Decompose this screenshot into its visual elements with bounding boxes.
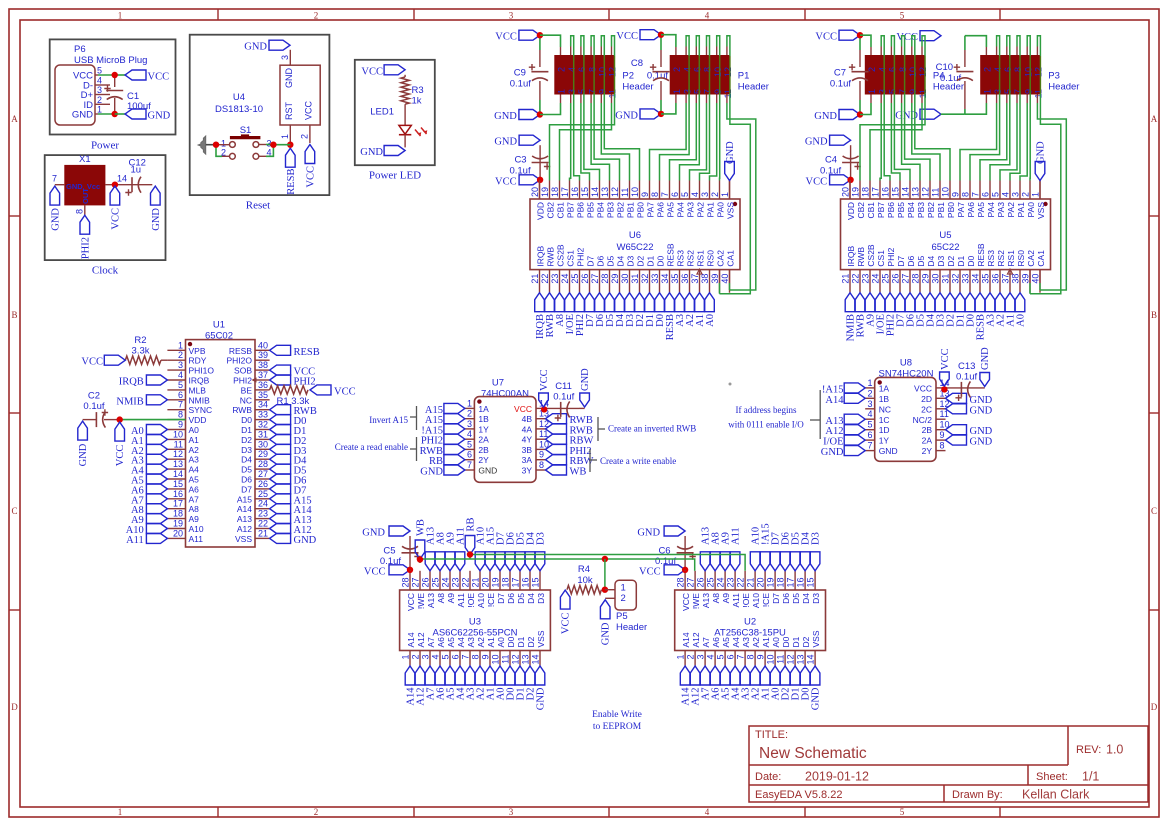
U6 pin 33 D0 (bottom)	[659, 270, 661, 293]
svg-text:12: 12	[608, 67, 618, 77]
U2 pin 18 D6 (top)	[784, 571, 786, 590]
net flag A2 (U5 pin 36)	[995, 293, 1005, 312]
svg-text:C2: C2	[88, 391, 100, 402]
svg-text:23: 23	[861, 274, 871, 284]
svg-text:RST: RST	[284, 101, 294, 120]
X1 pin 14 wire to VCC and C12	[105, 184, 152, 186]
svg-text:VSS: VSS	[1036, 202, 1046, 219]
svg-text:RWB: RWB	[856, 247, 866, 267]
U2 pin 15 D3 (top)	[814, 571, 816, 590]
net flag GND (C6)	[664, 526, 685, 536]
svg-text:Sheet:: Sheet:	[1036, 771, 1068, 783]
header P2 block	[554, 55, 615, 95]
U1 pin 10 A1	[167, 438, 185, 440]
svg-text:VCC: VCC	[914, 383, 932, 393]
svg-text:VSS: VSS	[536, 630, 546, 647]
svg-text:32: 32	[640, 274, 650, 284]
net flag D1 (U2 pin 12)	[790, 666, 800, 685]
U1 pin 25 A15	[255, 498, 270, 500]
svg-text:35: 35	[981, 274, 991, 284]
U6 pin 20 VDD (top)	[539, 181, 541, 200]
U5 pin 38 RS0 (bottom)	[1019, 270, 1021, 293]
svg-text:CA1: CA1	[1036, 250, 1046, 267]
resistor R3 1k	[404, 75, 406, 77]
svg-text:X1: X1	[79, 154, 91, 165]
U1 pin 27 D6	[255, 478, 270, 480]
wire header2 pin 11 to CA1 (outer loop)	[726, 95, 728, 104]
net flag A14 (U8 pin 2)	[844, 393, 865, 403]
wire pulldown branch	[604, 559, 606, 590]
svg-text:C3: C3	[514, 155, 526, 166]
U8 pin 4 1C	[865, 418, 875, 420]
svg-text:28: 28	[600, 274, 610, 284]
svg-text:6: 6	[726, 655, 736, 660]
svg-text:VCC: VCC	[539, 369, 550, 391]
U6 pin 36 RS2 (bottom)	[689, 270, 691, 293]
U3 pin 18 D6 (top)	[509, 571, 511, 590]
U8 pin 10 2B	[936, 429, 946, 431]
svg-text:PHI2: PHI2	[575, 247, 585, 266]
svg-text:D7: D7	[896, 255, 906, 266]
svg-text:20: 20	[173, 528, 183, 538]
svg-text:4: 4	[690, 192, 700, 197]
svg-text:8: 8	[178, 410, 183, 420]
svg-text:D0: D0	[781, 636, 791, 647]
svg-text:3: 3	[178, 360, 183, 370]
svg-text:14: 14	[531, 655, 541, 665]
svg-text:35: 35	[258, 390, 268, 400]
U1 pin 4 IRQB	[167, 379, 185, 381]
net flag RESB (U4)	[286, 148, 296, 167]
svg-text:26: 26	[580, 274, 590, 284]
svg-text:D6: D6	[241, 475, 252, 485]
svg-text:U1: U1	[213, 320, 225, 331]
wire header1 to VIA pin 14	[580, 47, 582, 56]
net flag A7 (U1)	[146, 494, 167, 504]
svg-text:PB0: PB0	[635, 202, 645, 218]
wire header1 to VIA pin 13	[901, 95, 903, 104]
svg-text:3: 3	[993, 89, 1003, 94]
svg-text:40: 40	[720, 274, 730, 284]
net flag A4 (U2 pin 6)	[730, 666, 740, 685]
svg-text:1: 1	[401, 655, 411, 660]
net flag A5 (U1)	[146, 474, 167, 484]
wire header2 to VIA pin 4	[1016, 47, 1018, 56]
U2 pin 25 A8 (top)	[714, 571, 716, 590]
svg-text:D5: D5	[916, 255, 926, 266]
svg-text:5: 5	[467, 439, 472, 449]
svg-text:IRQB: IRQB	[189, 376, 210, 386]
svg-text:A11: A11	[731, 527, 742, 545]
wire header2 to VIA pin 2	[716, 47, 718, 56]
wire header1 to VIA pin 18 (top rail)	[611, 95, 613, 104]
net flag A5 (U3 pin 5)	[445, 666, 455, 685]
svg-text:NMIB: NMIB	[189, 395, 211, 405]
svg-text:11: 11	[620, 188, 630, 197]
svg-text:A1: A1	[486, 637, 496, 648]
svg-text:GND: GND	[725, 141, 736, 164]
svg-text:GND: GND	[970, 395, 993, 406]
net flag GND (C3)	[519, 135, 540, 145]
wire WB bus to U2 !WE	[420, 559, 695, 563]
U2 pin 6 A4 (bottom)	[734, 651, 736, 667]
U7 pin 13 4B	[536, 418, 546, 420]
U5 pin 20 VDD (top)	[849, 181, 851, 200]
junction dot C5	[407, 567, 413, 573]
net flag D1 (U5 pin 32)	[955, 293, 965, 312]
P5 pin2 to GND	[605, 597, 615, 599]
svg-text:C11: C11	[555, 381, 572, 392]
svg-text:6: 6	[888, 67, 898, 72]
svg-text:11: 11	[1034, 89, 1044, 98]
U7 pin 11 4Y	[536, 438, 546, 440]
svg-text:A9: A9	[189, 514, 200, 524]
net flag A11 (U3 pin 23)	[455, 552, 465, 571]
svg-text:R1 3.3k: R1 3.3k	[277, 396, 310, 407]
U6 pin 24 CS1 (bottom)	[569, 270, 571, 293]
U5 pin 27 D6 (bottom)	[909, 270, 911, 293]
net flag RWB (U1 right pin 34)	[270, 405, 291, 415]
svg-text:12: 12	[786, 655, 796, 665]
svg-text:17: 17	[511, 577, 521, 587]
svg-text:PB3: PB3	[605, 202, 615, 218]
net flag GND (C11)	[580, 393, 590, 407]
net flag GND (C9 header)	[519, 110, 540, 120]
svg-text:18: 18	[861, 187, 871, 197]
svg-text:27: 27	[686, 577, 696, 587]
U5 pin 17 PB7 (top)	[879, 181, 881, 200]
svg-text:PHI2: PHI2	[886, 247, 896, 266]
net flag D4 (U1 right pin 29)	[270, 454, 291, 464]
svg-text:15: 15	[531, 577, 541, 587]
svg-text:5: 5	[577, 89, 587, 94]
U1 pin 6 NMIB	[167, 399, 185, 401]
U1 pin 21 VSS	[255, 537, 270, 539]
svg-text:7: 7	[1013, 89, 1023, 94]
svg-text:GND: GND	[970, 426, 993, 437]
svg-text:38: 38	[700, 274, 710, 284]
net flag VCC (U1 right pin 38)	[270, 365, 291, 375]
U5 pin 29 D4 (bottom)	[929, 270, 931, 293]
svg-text:3: 3	[509, 11, 514, 21]
svg-text:CA2: CA2	[1026, 250, 1036, 267]
U6 pin 12 PB2 (top)	[619, 181, 621, 200]
svg-text:RS0: RS0	[705, 250, 715, 267]
U7 pin 2 1B	[465, 418, 475, 420]
wire header2 to VIA pin 9	[685, 95, 687, 104]
U6 pin 21 IRQB (bottom)	[539, 270, 541, 293]
svg-text:21: 21	[746, 577, 756, 587]
wire header1 to VIA pin 10	[911, 47, 913, 56]
net flag A6 (U2 pin 4)	[710, 666, 720, 685]
svg-text:TITLE:: TITLE:	[755, 729, 788, 741]
svg-text:9: 9	[481, 655, 491, 660]
wire C10 to P3 pin2 (top loop)	[965, 36, 987, 47]
svg-text:14: 14	[173, 469, 183, 479]
U6 pin 35 RS3 (bottom)	[679, 270, 681, 293]
svg-text:1Y: 1Y	[478, 424, 489, 434]
svg-text:2: 2	[178, 350, 183, 360]
svg-text:32: 32	[258, 420, 268, 430]
net flag VCC (C4)	[830, 175, 851, 185]
svg-text:21: 21	[841, 274, 851, 284]
U5 pin 3 PA1 (top)	[1019, 181, 1021, 200]
net flag PHI2 (U7 pin 10)	[546, 444, 567, 454]
svg-text:GND: GND	[244, 42, 267, 53]
U5 pin 37 RS1 (bottom)	[1009, 270, 1011, 293]
svg-text:5: 5	[991, 192, 1001, 197]
X1 pin 8 OUT wire	[84, 205, 86, 215]
svg-text:24: 24	[871, 274, 881, 284]
svg-text:A11: A11	[126, 535, 144, 546]
svg-text:1k: 1k	[412, 96, 422, 107]
junction dot C6	[682, 567, 688, 573]
svg-text:GND: GND	[536, 687, 547, 710]
svg-text:P3: P3	[1048, 71, 1060, 82]
junction dots C8	[658, 32, 664, 38]
net flag RWB (U7 pin 12)	[546, 424, 567, 434]
svg-text:PB1: PB1	[625, 202, 635, 218]
U6 pin 28 D5 (bottom)	[609, 270, 611, 293]
svg-text:Kellan Clark: Kellan Clark	[1022, 788, 1090, 802]
U3 pin 16 D4 (top)	[529, 571, 531, 590]
capacitor C1 100uf	[114, 75, 116, 87]
svg-text:28: 28	[258, 459, 268, 469]
svg-text:RS2: RS2	[685, 250, 695, 267]
svg-text:GND: GND	[821, 447, 844, 458]
svg-text:PA5: PA5	[665, 202, 675, 218]
svg-text:23: 23	[451, 577, 461, 587]
svg-text:B: B	[1151, 310, 1157, 320]
wire header2 to VIA pin 7	[1006, 95, 1008, 104]
net flag D1 (U1 right pin 32)	[270, 425, 291, 435]
U1 pin 8 VDD	[167, 419, 185, 421]
net flag A1 (U2 pin 9)	[760, 666, 770, 685]
svg-text:D7: D7	[496, 593, 506, 604]
svg-text:15: 15	[806, 577, 816, 587]
svg-text:P5: P5	[616, 611, 628, 622]
svg-text:6: 6	[451, 655, 461, 660]
svg-text:4: 4	[993, 67, 1003, 72]
svg-text:3: 3	[97, 85, 102, 95]
U8 pin 2 1B	[865, 397, 875, 399]
svg-text:0.1uf: 0.1uf	[940, 73, 961, 84]
svg-text:16: 16	[173, 489, 183, 499]
X1 pin 7 wire	[55, 184, 65, 186]
svg-text:CB2: CB2	[856, 202, 866, 219]
svg-text:0.1uf: 0.1uf	[956, 372, 977, 383]
svg-text:A9: A9	[446, 593, 456, 604]
svg-text:IRQB: IRQB	[846, 245, 856, 266]
svg-text:16: 16	[881, 187, 891, 197]
U8 pin 9 2A	[936, 439, 946, 441]
svg-text:9: 9	[640, 192, 650, 197]
U1 pin 20 A11	[167, 537, 185, 539]
U5 pin 1 VSS (top)	[1039, 181, 1041, 200]
svg-text:1: 1	[280, 134, 290, 139]
net flag D2 (U1 right pin 31)	[270, 434, 291, 444]
svg-text:8: 8	[1013, 67, 1023, 72]
svg-text:D2: D2	[241, 435, 252, 445]
U3 pin 28 VCC (top)	[409, 571, 411, 590]
svg-text:2: 2	[314, 11, 319, 21]
svg-text:GND: GND	[72, 110, 93, 121]
svg-text:GND: GND	[615, 110, 638, 121]
U2 pin 24 A9 (top)	[724, 571, 726, 590]
svg-text:PA4: PA4	[675, 202, 685, 218]
svg-text:22: 22	[540, 274, 550, 284]
net flag !A15 (U7 pin 3)	[444, 424, 465, 434]
svg-text:32: 32	[951, 274, 961, 284]
svg-text:2C: 2C	[921, 404, 932, 414]
U8 pin 6 1Y	[865, 439, 875, 441]
U8 VCC pin14 node with C13	[946, 387, 985, 389]
svg-text:PA2: PA2	[695, 202, 705, 218]
svg-text:6: 6	[693, 67, 703, 72]
U5 pin 34 RESB (bottom)	[979, 270, 981, 293]
net flag GND (C7 header)	[839, 110, 860, 120]
U2 pin 4 A6 (bottom)	[714, 651, 716, 667]
svg-text:37: 37	[1001, 274, 1011, 284]
svg-text:GND: GND	[580, 368, 591, 391]
net flag A8 (U1)	[146, 504, 167, 514]
wire GND to P1 pin1	[661, 103, 676, 114]
U4 pin 2 VCC wire	[309, 125, 311, 143]
U5 pin 6 PA4 (top)	[989, 181, 991, 200]
svg-text:D0: D0	[966, 255, 976, 266]
svg-text:PA6: PA6	[966, 202, 976, 218]
svg-text:5: 5	[97, 66, 102, 76]
svg-text:A8: A8	[436, 593, 446, 604]
svg-text:D3: D3	[811, 593, 821, 604]
svg-text:3A: 3A	[522, 455, 533, 465]
svg-text:24: 24	[441, 577, 451, 587]
svg-text:13: 13	[911, 187, 921, 197]
svg-text:A3: A3	[466, 637, 476, 648]
net flag PHI2 (U1 right pin 37)	[270, 375, 291, 385]
svg-text:D1: D1	[516, 636, 526, 647]
svg-text:RESB: RESB	[286, 169, 297, 195]
svg-text:CS2B: CS2B	[555, 244, 565, 267]
U1 pin 38 SOB	[255, 369, 270, 371]
svg-text:VCC: VCC	[940, 348, 951, 370]
svg-text:29: 29	[921, 274, 931, 284]
svg-text:VCC: VCC	[681, 593, 691, 611]
svg-text:5: 5	[888, 89, 898, 94]
svg-text:R4: R4	[578, 564, 590, 575]
net flag A7 (U2 pin 3)	[700, 666, 710, 685]
U6 pin 17 PB7 (top)	[569, 181, 571, 200]
junction dots on C1	[112, 72, 118, 78]
svg-text:A7: A7	[426, 637, 436, 648]
svg-text:1A: 1A	[478, 404, 489, 414]
svg-text:65C22: 65C22	[932, 242, 960, 253]
svg-text:U4: U4	[233, 92, 245, 103]
U6 pin 22 RWB (bottom)	[549, 270, 551, 293]
svg-text:!OE: !OE	[466, 593, 476, 608]
svg-text:3: 3	[280, 55, 290, 60]
U8 pin 12 2C	[936, 408, 946, 410]
U6 pin 30 D3 (bottom)	[629, 270, 631, 293]
svg-text:31: 31	[630, 274, 640, 284]
svg-text:33: 33	[650, 274, 660, 284]
svg-text:16: 16	[570, 187, 580, 197]
wire header2 pin 11 to CA1 (outer loop)	[1036, 95, 1038, 104]
net flag D6 (U5 pin 27)	[905, 293, 915, 312]
U5 pin 8 PA6 (top)	[969, 181, 971, 200]
net flag A7 (U3 pin 3)	[425, 666, 435, 685]
svg-text:2: 2	[97, 95, 102, 105]
net flag RB (U7 pin 6)	[444, 455, 465, 465]
svg-text:6: 6	[867, 430, 872, 440]
svg-text:11: 11	[723, 89, 733, 98]
svg-text:Header: Header	[622, 82, 653, 93]
U3 pin 27 !WE (top)	[419, 571, 421, 590]
U5 pin 19 CB2 (top)	[859, 181, 861, 200]
svg-text:15: 15	[173, 479, 183, 489]
svg-text:1: 1	[1031, 192, 1041, 197]
svg-text:GND: GND	[601, 622, 612, 645]
svg-text:NC: NC	[240, 395, 252, 405]
junction dots S1	[213, 142, 219, 148]
net flag D3 (U1 right pin 30)	[270, 444, 291, 454]
svg-text:A12: A12	[691, 632, 701, 647]
junction dot C4	[847, 177, 853, 183]
svg-text:U2: U2	[744, 617, 756, 628]
svg-text:11: 11	[918, 89, 928, 98]
svg-text:17: 17	[173, 499, 183, 509]
svg-text:5: 5	[900, 11, 905, 21]
net flag A6 (U1)	[146, 484, 167, 494]
U2 pin 17 D5 (top)	[794, 571, 796, 590]
net flag A10 (U1)	[146, 524, 167, 534]
junction dots WB RB	[417, 556, 423, 562]
svg-text:VSS: VSS	[811, 630, 821, 647]
U2 pin 2 A12 (bottom)	[694, 651, 696, 667]
U3 pin 9 A1 (bottom)	[489, 651, 491, 667]
svg-text:A14: A14	[681, 632, 691, 647]
net flag RBW (U7 pin 11)	[546, 434, 567, 444]
svg-text:1C: 1C	[879, 415, 890, 425]
svg-text:A7: A7	[701, 637, 711, 648]
U1 pin 31 D2	[255, 438, 270, 440]
svg-text:2019-01-12: 2019-01-12	[805, 770, 869, 784]
net flag A13 (U2 pin 26)	[700, 552, 710, 571]
svg-text:13: 13	[796, 655, 806, 665]
svg-text:PA7: PA7	[956, 202, 966, 218]
svg-text:2B: 2B	[478, 445, 489, 455]
net flag D2 (U5 pin 31)	[945, 293, 955, 312]
svg-text:19: 19	[540, 187, 550, 197]
svg-text:A10: A10	[476, 593, 486, 608]
svg-text:34: 34	[660, 274, 670, 284]
svg-text:40: 40	[1031, 274, 1041, 284]
svg-text:GND: GND	[814, 111, 837, 122]
svg-text:2Y: 2Y	[922, 446, 933, 456]
net flag A3 (U2 pin 7)	[740, 666, 750, 685]
svg-text:PA0: PA0	[715, 202, 725, 218]
title block	[749, 726, 1148, 802]
wire VCC to header pin2	[540, 35, 561, 47]
svg-text:3: 3	[1011, 192, 1021, 197]
svg-text:D6: D6	[595, 255, 605, 266]
svg-text:6: 6	[1003, 67, 1013, 72]
U1 pin 2 RDY	[167, 359, 185, 361]
junction dot R4/P5	[602, 587, 608, 593]
svg-text:2: 2	[621, 593, 626, 604]
svg-text:RS1: RS1	[1006, 250, 1016, 267]
U6 pin 8 PA6 (top)	[659, 181, 661, 200]
